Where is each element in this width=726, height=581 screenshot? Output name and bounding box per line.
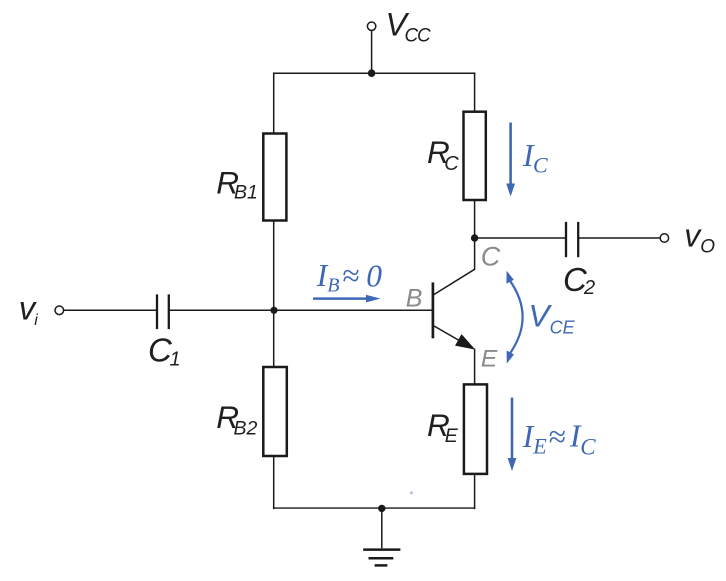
wire emitter vertical xyxy=(474,349,476,385)
wire emitter bottom xyxy=(474,474,476,509)
ground xyxy=(363,550,400,566)
svg-text:C: C xyxy=(533,153,548,178)
label RB1 xyxy=(216,165,258,204)
wire left middle xyxy=(273,221,275,368)
label Vcc xyxy=(386,6,432,46)
svg-text:B: B xyxy=(327,274,339,296)
capacitor C2 xyxy=(566,222,578,257)
wire output right xyxy=(579,237,661,239)
label RE xyxy=(427,407,459,447)
speck artifact xyxy=(410,491,413,494)
resistor RB2 xyxy=(263,367,287,456)
terminal vi xyxy=(55,306,64,315)
svg-text:E: E xyxy=(445,425,459,447)
transistor Q1 base bar xyxy=(432,282,435,338)
svg-text:0: 0 xyxy=(366,258,382,293)
svg-text:B1: B1 xyxy=(234,182,258,204)
wire top rail xyxy=(273,72,475,74)
wire input left xyxy=(64,309,157,311)
label RB2 xyxy=(216,399,257,440)
wire base xyxy=(169,309,433,311)
label C1 xyxy=(148,332,181,371)
label C2 xyxy=(563,261,595,299)
resistor RB1 xyxy=(263,134,286,221)
svg-text:C: C xyxy=(481,241,501,271)
transistor Q1 emitter with arrow xyxy=(434,326,474,349)
label IC xyxy=(522,138,548,177)
svg-text:≈: ≈ xyxy=(342,258,359,293)
wire bottom rail xyxy=(273,507,475,509)
resistor RC xyxy=(464,112,486,200)
svg-text:1: 1 xyxy=(170,349,181,371)
junction base node xyxy=(270,307,277,314)
annotation IC arrow xyxy=(506,123,515,197)
label vi xyxy=(19,290,38,329)
wire left bottom xyxy=(273,456,275,509)
svg-text:C: C xyxy=(444,153,459,175)
capacitor C1 xyxy=(157,294,169,329)
wire Vcc stub xyxy=(371,30,373,73)
wire output left xyxy=(475,237,566,239)
junction collector node C xyxy=(471,234,478,241)
junction ground node xyxy=(378,505,385,512)
label RC xyxy=(427,134,459,175)
svg-text:O: O xyxy=(700,236,715,257)
wire collector to transistor xyxy=(434,238,475,295)
svg-text:B2: B2 xyxy=(234,418,258,440)
svg-text:E: E xyxy=(532,434,547,459)
svg-text:C: C xyxy=(580,435,596,460)
wire ground stub xyxy=(381,509,383,549)
label vo xyxy=(684,217,715,257)
wire collector vertical xyxy=(474,200,476,238)
junction Vcc node xyxy=(368,69,376,77)
resistor RE xyxy=(464,384,487,474)
wire right top xyxy=(474,72,476,111)
label IE approx IC xyxy=(522,419,597,460)
label VCE xyxy=(529,297,576,337)
wire left top xyxy=(273,72,275,133)
svg-text:B: B xyxy=(406,285,423,313)
svg-text:E: E xyxy=(481,345,498,372)
terminal Vcc xyxy=(367,22,375,30)
label IB approx 0 xyxy=(316,258,383,296)
svg-text:2: 2 xyxy=(583,277,595,299)
svg-text:i: i xyxy=(34,312,38,329)
svg-text:CE: CE xyxy=(550,317,576,337)
annotation IE arrow xyxy=(508,398,517,471)
terminal vo xyxy=(660,234,668,242)
svg-text:CC: CC xyxy=(405,26,432,47)
annotation IB arrow xyxy=(313,295,381,303)
svg-text:≈: ≈ xyxy=(548,419,565,454)
annotation VCE arc xyxy=(506,271,522,364)
